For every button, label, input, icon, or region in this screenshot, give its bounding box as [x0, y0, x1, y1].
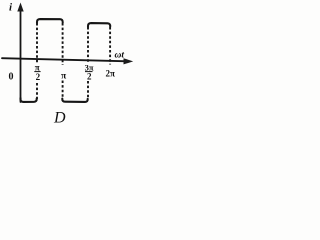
svg-text:ωt: ωt [115, 51, 125, 61]
svg-text:π: π [61, 72, 67, 82]
svg-text:D: D [53, 110, 66, 127]
svg-text:2: 2 [87, 71, 92, 81]
svg-text:2π: 2π [106, 68, 116, 78]
svg-text:2: 2 [36, 72, 41, 82]
svg-text:0: 0 [9, 72, 14, 83]
